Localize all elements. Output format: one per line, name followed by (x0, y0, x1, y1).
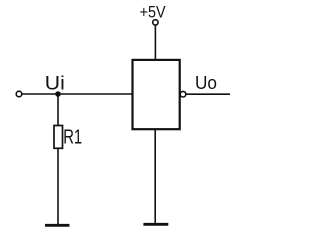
resistor R1 (54, 126, 63, 149)
terminal Ui (16, 91, 22, 97)
wire (186, 93, 230, 95)
wire (22, 93, 132, 95)
svg-text:Ui: Ui (45, 73, 65, 94)
wire (154, 129, 156, 223)
ground (143, 223, 168, 226)
svg-text:R1: R1 (63, 127, 82, 149)
svg-text:+5V: +5V (140, 3, 167, 22)
node junction (55, 91, 61, 97)
wire (57, 94, 59, 126)
terminal +5V (153, 20, 158, 25)
component U1 box (133, 60, 180, 129)
wire (154, 25, 156, 59)
pin terminal Uo (180, 91, 186, 97)
ground (45, 224, 70, 227)
svg-text:Uo: Uo (195, 72, 217, 93)
wire (57, 148, 59, 224)
